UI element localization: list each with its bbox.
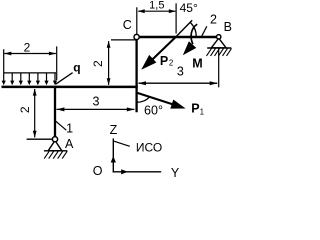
45deg guide line of P2: [176, 20, 192, 36]
leader line for ISO label: [114, 141, 130, 146]
svg-text:O: O: [93, 164, 103, 178]
frame member: vertical post under C: [135, 36, 137, 112]
dimension 3 (right span): line and arrows: [139, 82, 218, 84]
svg-text:2: 2: [24, 40, 31, 54]
force P1 arrow: [137, 93, 173, 105]
svg-text:45°: 45°: [180, 1, 198, 15]
svg-text:P: P: [160, 54, 168, 68]
node A pin circle: [52, 137, 57, 142]
dimension 1,5: line and arrows: [138, 10, 175, 12]
coordinate axes: Z axis line: [112, 138, 114, 171]
pin support at B: ground line: [207, 47, 231, 49]
dimension 3 (right): extension line below B: [218, 48, 220, 87]
dimension 3 (left span): line and arrows: [57, 108, 135, 110]
svg-text:60°: 60°: [144, 103, 163, 117]
svg-text:B: B: [224, 20, 232, 34]
svg-text:1: 1: [200, 107, 205, 116]
60deg angle arc: [137, 97, 150, 103]
distributed load q: top line: [4, 72, 56, 74]
svg-text:ИСО: ИСО: [136, 140, 162, 154]
moment M arc arrow: [191, 24, 197, 44]
svg-text:3: 3: [177, 64, 184, 78]
svg-text:2: 2: [210, 13, 217, 27]
frame member: middle beam: [2, 86, 138, 89]
svg-text:P: P: [191, 102, 199, 116]
svg-text:2: 2: [91, 60, 105, 67]
pin support at A: triangle: [48, 141, 62, 151]
force P2 arrow: [151, 37, 176, 61]
wire / frame member: top beam C-B: [137, 36, 219, 39]
pin support at A: ground line: [44, 150, 67, 152]
pin support at A: hatching: [44, 151, 67, 158]
svg-text:Y: Y: [171, 166, 180, 178]
svg-text:C: C: [123, 18, 132, 32]
leader line for label 2 (near B): [201, 26, 207, 37]
dimension 2 (left column): line and arrows: [34, 89, 36, 137]
pin support at B: triangle: [211, 38, 226, 48]
svg-text:3: 3: [93, 94, 100, 108]
coordinate axes: Y axis line: [113, 171, 162, 173]
node B pin circle: [217, 35, 221, 39]
dimension 1,5: extension lines: [136, 7, 138, 34]
svg-text:M: M: [192, 56, 202, 70]
dimension 2 (left column): base reference line at A level: [27, 138, 53, 140]
svg-text:2: 2: [169, 59, 174, 68]
svg-text:Z: Z: [110, 123, 118, 137]
frame member: left column to A: [54, 86, 56, 137]
svg-text:A: A: [65, 137, 74, 151]
svg-text:1,5: 1,5: [149, 0, 164, 12]
node C joint circle: [134, 34, 139, 39]
svg-text:q: q: [73, 60, 80, 74]
leader line for label 1: [55, 121, 66, 130]
svg-text:2: 2: [18, 106, 32, 113]
leader line for q: [56, 73, 73, 85]
svg-text:1: 1: [66, 122, 73, 136]
pin support at B: hatching: [207, 48, 232, 56]
distributed load q: arrows: [4, 73, 55, 81]
dimension 2 (mid): extension line under top beam: [111, 39, 136, 41]
dimension 2 (over load): extension lines: [3, 49, 5, 73]
dimension 2 (mid): line and arrows: [108, 41, 110, 85]
dimension 2 (over load): line and arrows: [4, 53, 56, 55]
45deg angle arc: [190, 23, 196, 37]
